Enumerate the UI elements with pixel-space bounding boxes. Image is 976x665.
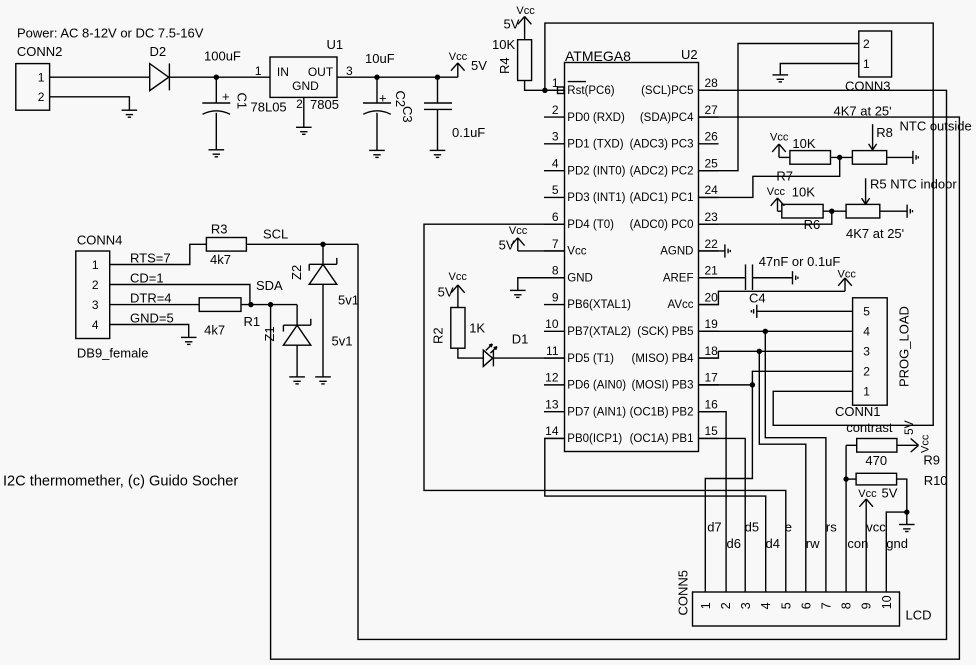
overline for Rst xyxy=(568,81,586,83)
label Vcc supply xyxy=(449,51,468,63)
svg-text:22: 22 xyxy=(705,237,719,251)
pin 9 label PB6(XTAL1) xyxy=(567,299,631,311)
svg-text:Rst(PC6): Rst(PC6) xyxy=(567,85,614,97)
pin 3 of CONN5 xyxy=(739,602,753,609)
svg-text:4: 4 xyxy=(92,318,99,332)
label Vcc of R7 xyxy=(770,132,789,144)
svg-text:U1: U1 xyxy=(327,37,344,52)
svg-text:4K7 at 25ʹ: 4K7 at 25ʹ xyxy=(846,226,904,241)
svg-text:3: 3 xyxy=(739,602,753,609)
svg-text:GND: GND xyxy=(292,79,319,93)
label Vcc of R4 xyxy=(516,5,535,17)
pin 26 stub xyxy=(699,143,719,145)
label PROG_LOAD xyxy=(896,306,911,387)
label LCD signal d7 xyxy=(707,520,721,535)
wire GND pin8 xyxy=(518,278,565,291)
text title I2C thermomether xyxy=(3,474,238,490)
pin 14 number xyxy=(545,424,559,438)
svg-text:D1: D1 xyxy=(512,332,529,347)
label 7805 xyxy=(310,97,339,112)
label contrast xyxy=(846,420,893,435)
pin 13 label PD7 (AIN1) xyxy=(567,406,626,418)
wire SDA net long run to PC4 xyxy=(271,117,960,659)
ground C3 xyxy=(430,150,446,157)
svg-text:PD2 (INT0): PD2 (INT0) xyxy=(567,165,625,177)
wire MISO pin18 to CONN1-3 xyxy=(699,351,853,358)
wire to LCD gnd xyxy=(886,512,907,592)
svg-text:11: 11 xyxy=(546,344,559,358)
wire R5 to ground xyxy=(880,210,907,212)
svg-text:+: + xyxy=(379,91,387,106)
svg-text:rw: rw xyxy=(806,536,820,551)
svg-text:PD1 (TXD): PD1 (TXD) xyxy=(567,139,623,151)
label Vcc of R9 xyxy=(920,434,932,453)
power Vcc arrow at pin7 xyxy=(511,238,525,251)
svg-text:4: 4 xyxy=(759,602,773,609)
pin 2 stub xyxy=(544,116,565,118)
label R6 xyxy=(804,217,821,232)
pin 13 stub xyxy=(544,411,565,413)
svg-text:Vcc: Vcc xyxy=(449,271,468,283)
pin 5 of CONN5 xyxy=(779,602,793,609)
svg-text:8: 8 xyxy=(552,264,559,278)
pin 28 label (SCL)PC5 xyxy=(641,85,693,97)
svg-text:+: + xyxy=(222,89,230,104)
wire RESET net to CONN1 pin1 xyxy=(545,23,933,425)
label C4 xyxy=(749,291,766,306)
wire R3 to SCL vertical xyxy=(247,243,358,245)
label CONN3 xyxy=(845,79,891,94)
wire CONN4-2 CD to SDA xyxy=(110,285,250,305)
svg-text:AVcc: AVcc xyxy=(668,299,694,311)
wire pin24 to R7 wiper xyxy=(699,157,840,197)
pin 22 stub xyxy=(699,250,719,252)
svg-text:con: con xyxy=(847,536,868,551)
wire CONN4-3 to R1 xyxy=(110,304,200,306)
label 78L05 xyxy=(251,100,287,115)
junction node SDA xyxy=(268,302,273,307)
svg-text:PD6 (AIN0): PD6 (AIN0) xyxy=(567,380,626,392)
connector CONN5 xyxy=(693,592,900,626)
wire to C1 xyxy=(215,77,217,103)
label LCD xyxy=(906,608,932,623)
svg-text:Z1: Z1 xyxy=(262,326,277,341)
svg-text:R4: R4 xyxy=(497,57,512,74)
svg-text:13: 13 xyxy=(545,397,559,411)
pin 17 number xyxy=(705,371,719,385)
label C3 xyxy=(400,106,415,123)
label LCD signal rs xyxy=(826,520,837,535)
svg-text:24: 24 xyxy=(705,183,719,197)
svg-text:19: 19 xyxy=(705,317,719,331)
label R10 xyxy=(924,473,948,488)
wire C3 to ground xyxy=(437,109,439,150)
label Vcc of LCD xyxy=(858,488,877,500)
svg-text:9: 9 xyxy=(552,290,559,304)
svg-text:Vcc: Vcc xyxy=(449,51,468,63)
svg-text:21: 21 xyxy=(705,264,719,278)
svg-text:1: 1 xyxy=(863,385,870,399)
wire SCK to LCD rs xyxy=(765,331,826,592)
ground CONN4-4 xyxy=(181,337,197,344)
ground Z2 xyxy=(315,377,331,384)
pin 27 label (SDA)PC4 xyxy=(640,112,694,124)
svg-text:7805: 7805 xyxy=(310,97,339,112)
junction node R9-R10 xyxy=(843,476,848,481)
svg-text:contrast: contrast xyxy=(846,420,893,435)
zener diode Z2 xyxy=(309,258,337,284)
pin 3 label PD1 (TXD) xyxy=(567,139,623,151)
svg-text:I2C thermomether, (c) Guido So: I2C thermomether, (c) Guido Socher xyxy=(3,474,238,490)
pin 12 number xyxy=(545,371,559,385)
text power rating note xyxy=(17,26,204,41)
svg-text:CONN1: CONN1 xyxy=(835,404,881,419)
svg-text:(OC1A) PB1: (OC1A) PB1 xyxy=(630,433,694,445)
pin 1 of U1 xyxy=(255,64,262,78)
label 100uF value of C1 xyxy=(204,49,241,64)
label R5 NTC indoor xyxy=(870,177,957,192)
pin 15 stub xyxy=(699,437,719,439)
wire MISO to LCD rw xyxy=(759,351,806,592)
capacitor C1 polarized xyxy=(202,103,230,114)
label 10K value of R4 xyxy=(492,37,515,52)
label 4k7 value of R1 xyxy=(204,323,225,338)
pin 1 of CONN3 xyxy=(863,57,870,71)
svg-text:CONN5: CONN5 xyxy=(676,570,691,616)
label D1 xyxy=(512,332,529,347)
wire CONN4-4 to ground xyxy=(110,325,189,338)
resistor R7 xyxy=(790,151,831,165)
pin 21 label AREF xyxy=(663,272,694,284)
svg-text:4: 4 xyxy=(863,325,870,339)
svg-text:Vcc: Vcc xyxy=(509,225,528,237)
svg-text:(SDA)PC4: (SDA)PC4 xyxy=(640,112,694,124)
label 1K value of R2 xyxy=(469,321,485,336)
pin 8 number xyxy=(552,264,559,278)
svg-text:2: 2 xyxy=(296,97,303,111)
NTC arrow of R8 xyxy=(869,124,877,150)
label R3 xyxy=(211,222,228,237)
pin 27 number xyxy=(705,103,719,117)
svg-text:2: 2 xyxy=(38,90,45,104)
label Vcc pin7 xyxy=(509,225,528,237)
pin 1 of CONN1 xyxy=(863,385,870,399)
svg-text:12: 12 xyxy=(545,371,559,385)
pin 4 label PD2 (INT0) xyxy=(567,165,625,177)
svg-text:DTR=4: DTR=4 xyxy=(130,291,172,306)
wire CONN3-1 to ground xyxy=(780,64,859,75)
wire U1 OUT to Vcc xyxy=(337,76,458,78)
pin 15 label (OC1A) PB1 xyxy=(630,433,694,445)
pin 4 stub xyxy=(544,170,565,172)
wire CONN2-1 to D2 xyxy=(50,76,150,78)
wire Z2 to ground xyxy=(322,284,324,377)
wire CONN3-2 to PC2 pin25 xyxy=(699,44,859,171)
svg-text:R6: R6 xyxy=(804,217,821,232)
svg-text:PB7(XTAL2): PB7(XTAL2) xyxy=(567,326,631,338)
pin 6 stub xyxy=(544,223,565,225)
svg-text:18: 18 xyxy=(705,344,719,358)
svg-text:20: 20 xyxy=(705,290,719,304)
svg-text:(MISO) PB4: (MISO) PB4 xyxy=(632,353,695,365)
wire SCL net long run to PC5 xyxy=(358,90,947,639)
pin 28 number xyxy=(705,76,719,90)
svg-text:15: 15 xyxy=(705,424,719,438)
svg-text:23: 23 xyxy=(705,210,719,224)
NTC arrow of R5 xyxy=(862,178,870,204)
label + of C2 xyxy=(379,91,387,106)
svg-text:17: 17 xyxy=(705,371,719,385)
LED D1 xyxy=(483,350,493,366)
junction node R6-R5 xyxy=(829,209,834,214)
wire to C2 xyxy=(376,77,378,103)
svg-text:5: 5 xyxy=(863,305,870,319)
pin 23 stub xyxy=(699,223,719,225)
resistor R5 NTC xyxy=(846,204,880,218)
resistor R2 xyxy=(451,308,465,349)
svg-text:C3: C3 xyxy=(400,106,415,123)
connector CONN2 label xyxy=(17,44,63,59)
svg-text:3: 3 xyxy=(863,345,870,359)
connector CONN1 xyxy=(853,298,888,405)
label 5V of R4 xyxy=(504,17,520,32)
svg-text:3: 3 xyxy=(552,130,559,144)
svg-text:4k7: 4k7 xyxy=(204,323,225,338)
svg-text:28: 28 xyxy=(705,76,719,90)
svg-text:AGND: AGND xyxy=(660,246,693,258)
label 5V of R9 xyxy=(902,420,916,435)
svg-text:Vcc: Vcc xyxy=(858,488,877,500)
wire R8 to ground xyxy=(887,156,913,158)
pin 15 number xyxy=(705,424,719,438)
wire R9 right to Vcc xyxy=(897,439,919,453)
svg-text:U2: U2 xyxy=(681,47,698,62)
wire SCL to Z2 xyxy=(322,244,324,264)
svg-text:d6: d6 xyxy=(727,536,741,551)
svg-text:5V: 5V xyxy=(504,17,520,32)
label R4 xyxy=(497,57,512,74)
pin 9 number xyxy=(552,290,559,304)
svg-text:CONN3: CONN3 xyxy=(845,79,891,94)
op-amp/IC U2 ATMEGA8 body xyxy=(565,63,699,452)
pin 4 of CONN5 xyxy=(759,602,773,609)
label Vcc of AVcc xyxy=(838,268,857,280)
svg-text:8: 8 xyxy=(840,602,854,609)
label R8 xyxy=(876,125,893,140)
svg-text:3: 3 xyxy=(92,298,99,312)
svg-text:5v1: 5v1 xyxy=(338,292,359,307)
power Vcc 5V supply arrow xyxy=(451,63,465,77)
svg-text:0.1uF: 0.1uF xyxy=(452,125,485,140)
wire AVcc pin20 xyxy=(699,291,846,304)
svg-text:R2: R2 xyxy=(431,327,446,344)
ground pin8 xyxy=(510,290,526,297)
pin 12 label PD6 (AIN0) xyxy=(567,380,626,392)
svg-text:d7: d7 xyxy=(707,520,721,535)
svg-text:9: 9 xyxy=(860,602,874,609)
label LCD signal e xyxy=(785,520,792,535)
svg-text:IN: IN xyxy=(277,65,289,79)
svg-text:1: 1 xyxy=(255,64,262,78)
pin 7 stub xyxy=(544,250,565,252)
pin 9 of CONN5 xyxy=(860,602,874,609)
wire PB0 pin14 to LCD d4 xyxy=(545,438,766,592)
pin 2 number xyxy=(552,103,559,117)
svg-text:10: 10 xyxy=(880,595,894,609)
pin 17 stub xyxy=(699,384,719,386)
svg-text:27: 27 xyxy=(705,103,719,117)
svg-text:PROG_LOAD: PROG_LOAD xyxy=(896,306,911,387)
svg-text:R7: R7 xyxy=(776,169,793,184)
junction node C3 xyxy=(435,75,440,80)
svg-text:6: 6 xyxy=(799,602,813,609)
svg-text:1: 1 xyxy=(552,76,559,90)
svg-text:5V: 5V xyxy=(499,238,515,253)
wire C4 to ground xyxy=(753,277,793,279)
junction node C1 xyxy=(214,75,219,80)
wire Vcc pin7 xyxy=(518,250,565,252)
pin 11 label PD5 (T1) xyxy=(567,353,614,365)
pin 2 of CONN5 xyxy=(719,602,733,609)
pin 28 stub xyxy=(699,89,719,91)
svg-text:R5 NTC indoor: R5 NTC indoor xyxy=(870,177,957,192)
svg-text:78L05: 78L05 xyxy=(251,100,287,115)
pin 6 of CONN5 xyxy=(799,602,813,609)
label 4K7 at 25 of R5 xyxy=(846,226,904,241)
pin 4 of CONN4 xyxy=(92,318,99,332)
ground rotated R8 xyxy=(913,151,918,164)
svg-text:LCD: LCD xyxy=(906,608,932,623)
label CONN5 xyxy=(676,570,691,616)
junction node MOSI xyxy=(750,382,755,387)
svg-text:vcc: vcc xyxy=(866,520,886,535)
svg-text:5: 5 xyxy=(779,602,793,609)
label R1 xyxy=(244,314,261,329)
label 5V of LCD xyxy=(882,486,898,501)
label C1 xyxy=(235,93,250,110)
svg-text:6: 6 xyxy=(552,210,559,224)
pin 9 stub xyxy=(544,304,565,306)
label R2 xyxy=(431,327,446,344)
pin 23 label (ADC0) PC0 xyxy=(630,219,694,231)
pin 2 of CONN4 xyxy=(92,278,99,292)
pin 16 number xyxy=(705,397,719,411)
pin 21 stub xyxy=(699,277,719,279)
svg-text:CD=1: CD=1 xyxy=(130,271,164,286)
wire CONN1-2 to MOSI xyxy=(752,371,852,385)
connector CONN3 xyxy=(859,31,892,77)
svg-text:CONN4: CONN4 xyxy=(77,233,123,248)
wire R9 left down to LCD con xyxy=(846,445,857,592)
svg-text:PB6(XTAL1): PB6(XTAL1) xyxy=(567,299,631,311)
wire R10 right to ground xyxy=(897,479,907,524)
svg-text:16: 16 xyxy=(705,397,719,411)
ground R10 xyxy=(899,525,915,532)
pin 3 number xyxy=(552,130,559,144)
resistor R4 xyxy=(518,40,532,81)
pin 3 of CONN4 xyxy=(92,298,99,312)
pin 10 number xyxy=(545,317,559,331)
svg-text:2: 2 xyxy=(863,37,870,51)
wire PD4 pin6 to LCD e xyxy=(424,224,786,592)
pin 6 label PD4 (T0) xyxy=(567,219,614,231)
svg-text:Z2: Z2 xyxy=(289,265,304,280)
pin 5 label PD3 (INT1) xyxy=(567,192,625,204)
wire R7 to R8 xyxy=(831,156,853,158)
pin 1 stub xyxy=(544,89,565,91)
pin 10 of CONN5 xyxy=(880,595,894,609)
pin 26 number xyxy=(705,130,719,144)
svg-text:47nF or 0.1uF: 47nF or 0.1uF xyxy=(759,254,841,269)
svg-text:PD7 (AIN1): PD7 (AIN1) xyxy=(567,406,626,418)
label 10K value of R7 xyxy=(792,136,815,151)
wire R10 left xyxy=(846,478,856,480)
svg-text:14: 14 xyxy=(545,424,559,438)
svg-text:PD0 (RXD): PD0 (RXD) xyxy=(567,112,625,124)
pin 2 label PD0 (RXD) xyxy=(567,112,625,124)
svg-text:1: 1 xyxy=(92,258,99,272)
svg-text:Vcc: Vcc xyxy=(516,5,535,17)
pin 8 label GND xyxy=(567,272,593,284)
svg-text:SCL: SCL xyxy=(263,226,288,241)
wire C2 to ground xyxy=(376,113,378,151)
ground C1 xyxy=(209,150,225,157)
pin 23 number xyxy=(705,210,719,224)
svg-text:2: 2 xyxy=(719,602,733,609)
label LCD signal vcc xyxy=(866,520,886,535)
pin 14 stub xyxy=(544,437,565,439)
wire R1 to Z1 xyxy=(241,304,297,306)
label LCD signal d5 xyxy=(745,520,759,535)
svg-text:Vcc: Vcc xyxy=(838,268,857,280)
resistor R10 xyxy=(856,473,897,485)
ground rotated R5 xyxy=(907,205,912,218)
svg-text:PD3 (INT1): PD3 (INT1) xyxy=(567,192,625,204)
pin 12 stub xyxy=(544,384,565,386)
wire AREF pin21 to C4 xyxy=(699,277,746,279)
svg-text:10: 10 xyxy=(545,317,559,331)
resistor R8 NTC xyxy=(852,151,886,165)
wire SCK pin19 to CONN1-4 xyxy=(699,330,853,332)
pin 11 number xyxy=(546,344,559,358)
pin 7 number xyxy=(552,237,559,251)
junction node SCL at Z2 xyxy=(320,242,325,247)
ground rotated CONN1-5 xyxy=(751,305,756,318)
junction node gnd branch xyxy=(904,509,909,514)
pin 19 number xyxy=(705,317,719,331)
pin 2 of CONN3 xyxy=(863,37,870,51)
svg-text:10uF: 10uF xyxy=(365,51,395,66)
junction node SCK xyxy=(763,329,768,334)
svg-text:(SCK) PB5: (SCK) PB5 xyxy=(637,326,693,338)
label U1 xyxy=(327,37,344,52)
svg-text:Vcc: Vcc xyxy=(770,132,789,144)
ground C2 xyxy=(369,150,385,157)
label RTS=7 xyxy=(130,251,171,266)
pin 18 number xyxy=(705,344,719,358)
pin 20 number xyxy=(705,290,719,304)
svg-text:10K: 10K xyxy=(792,136,815,151)
wire CONN1-5 to ground xyxy=(757,310,853,312)
junction node R7-R8 xyxy=(837,155,842,160)
pin 3 stub xyxy=(544,143,565,145)
pin 7 label Vcc xyxy=(567,246,586,258)
label 0.1uF value of C3 xyxy=(452,125,485,140)
diode D2 xyxy=(150,63,170,90)
label CONN1 xyxy=(835,404,881,419)
label Z2 xyxy=(289,265,304,280)
pin 24 number xyxy=(705,183,719,197)
